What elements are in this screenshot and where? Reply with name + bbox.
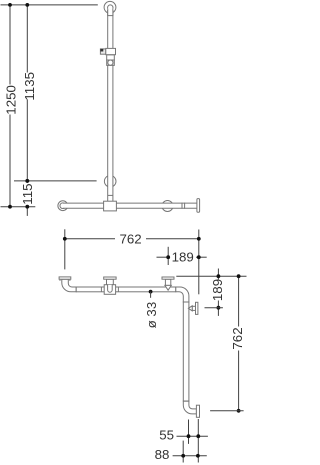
- svg-text:88: 88: [155, 447, 170, 462]
- holder circle: [108, 60, 113, 65]
- wall bracket circle on bar (behind bar): [162, 201, 173, 212]
- rail joint line above T junction: [108, 194, 113, 196]
- slider body: [106, 48, 116, 54]
- dimension 189 top: [157, 247, 207, 265]
- svg-text:55: 55: [159, 427, 174, 442]
- joint lines on bar at junction: [100, 287, 102, 292]
- left wall flange outer circle: [58, 201, 68, 211]
- extension line top (rail top): [1, 4, 98, 6]
- left wall flange inner circle: [60, 203, 66, 209]
- right end wall flange (edge-on): [197, 199, 200, 213]
- slider knob: [100, 49, 105, 54]
- dimension 55: [159, 419, 208, 463]
- lower wall bracket circle (behind rail): [104, 176, 116, 188]
- svg-text:762: 762: [120, 231, 142, 246]
- rail joint line below ring: [108, 15, 113, 17]
- svg-text:ø 33: ø 33: [144, 302, 159, 329]
- T junction box (plan): [104, 285, 115, 295]
- dimension 762 right: [230, 274, 245, 412]
- svg-text:762: 762: [230, 327, 245, 349]
- slider neck: [107, 55, 115, 60]
- extension line bottom flange axis: [210, 410, 244, 412]
- dimension 1250: [3, 3, 18, 209]
- svg-text:115: 115: [20, 183, 35, 204]
- svg-text:189: 189: [172, 250, 194, 265]
- bracket 3 cone: [188, 306, 192, 311]
- rail mount stem (plan): [107, 279, 114, 285]
- bracket 2 cone: [165, 285, 171, 290]
- bracket 3 flange: [196, 302, 198, 314]
- rail tube end (plan, U shape): [108, 285, 113, 293]
- diameter label leader: [149, 290, 153, 294]
- plan bar: left elbow to wall: [62, 279, 76, 292]
- T junction box: [104, 201, 117, 211]
- plan bar bottom elbow: [183, 401, 196, 414]
- svg-text:1135: 1135: [22, 72, 37, 101]
- dimension 88: [155, 441, 207, 463]
- bracket 2 stem (plan): [165, 279, 170, 285]
- extension line at lower wall bracket: [14, 180, 97, 182]
- svg-text:189: 189: [210, 279, 225, 301]
- svg-text:1250: 1250: [3, 85, 18, 115]
- horizontal grab bar tube: [63, 203, 197, 208]
- ring inner hole: [108, 5, 113, 10]
- plan bar vertical tube: [183, 302, 189, 401]
- plan bar horizontal tube: [76, 287, 176, 292]
- extension line bracket 3 axis: [205, 307, 223, 309]
- vertical shower rail tube: [108, 7, 113, 201]
- rail mount cap (plan): [104, 277, 116, 279]
- dimension 1135: [22, 3, 37, 183]
- collar joint on bar right: [181, 203, 183, 209]
- extension line at bar axis bottom left: [1, 206, 36, 208]
- ring at top of shower rail: [104, 1, 116, 13]
- wall A extension line: [176, 275, 246, 277]
- bracket 2 cap (plan): [162, 277, 174, 279]
- left flange cap (plan): [59, 277, 71, 279]
- slider knob dark cap: [100, 49, 103, 52]
- plan bar corner bend: [176, 287, 189, 302]
- joint line above bottom elbow: [183, 400, 189, 402]
- holder block: [107, 60, 115, 65]
- dimension 762 top: [63, 229, 201, 294]
- dimension 115: [20, 179, 35, 216]
- bottom wall flange: [196, 405, 199, 417]
- bracket 3 stem: [192, 306, 195, 310]
- dimension 189 right: [210, 269, 225, 316]
